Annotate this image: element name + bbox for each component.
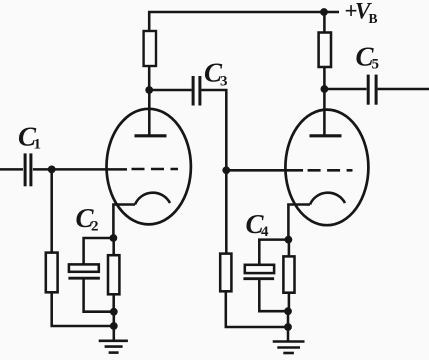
- wire Rk2 bottom to node I: [288, 293, 291, 312]
- wire ground stem 1: [113, 326, 116, 341]
- wire C4 bottom to node I: [259, 279, 288, 312]
- node C (grid 2): [222, 166, 230, 174]
- resistor Rk2 (cathode, stage 2): [283, 256, 294, 292]
- grid dashes V1: [132, 168, 179, 171]
- wire C1 to node A: [33, 168, 52, 171]
- wire node D to Rk1: [112, 238, 115, 255]
- wire node H to Rk2: [288, 240, 291, 257]
- wire node A down to Rg1: [50, 169, 53, 252]
- node I: [284, 307, 292, 315]
- node F: [110, 322, 118, 330]
- capacitor C5: [368, 75, 376, 105]
- wire top supply rail: [149, 12, 324, 31]
- wire node C down to Rg2: [225, 170, 228, 253]
- cathode lead V2: [288, 205, 310, 240]
- plate bar V1: [135, 134, 167, 137]
- wire node B to C3: [149, 89, 191, 92]
- ground 2: [273, 342, 305, 354]
- node A (grid 1): [48, 166, 56, 174]
- plate bar V2: [310, 134, 342, 137]
- wire Ra1 bottom to node B: [148, 66, 151, 90]
- resistor Rg2 (grid leak, stage 2): [220, 254, 231, 292]
- wire Ra2 bottom to node G: [323, 67, 326, 89]
- resistor Ra2 (plate load, stage 2): [319, 33, 331, 68]
- svg-text:4: 4: [261, 224, 269, 240]
- wire C2 bottom to node E: [84, 278, 114, 312]
- capacitor C1: [25, 153, 31, 186]
- wire Rk1 bottom to node E: [112, 294, 115, 311]
- wire ground stem 2: [287, 327, 290, 342]
- capacitor C2 (bottom plate): [68, 277, 100, 280]
- resistor Ra2 lead from rail: [323, 12, 326, 33]
- node H (cathode 2): [285, 236, 293, 244]
- capacitor C3: [193, 76, 200, 106]
- cathode lead V1: [113, 205, 135, 239]
- node B (plate 1 / C3): [145, 86, 153, 94]
- cathode arc V2: [310, 193, 345, 205]
- svg-text:1: 1: [34, 137, 42, 153]
- ground 1: [99, 341, 128, 353]
- capacitor C4 (bottom plate): [243, 277, 274, 280]
- wire node D to C2 branch: [84, 238, 114, 264]
- svg-text:5: 5: [372, 57, 380, 73]
- node G (plate 2 / C5): [321, 85, 329, 93]
- resistor Rg1 (grid leak, stage 1): [46, 253, 58, 293]
- resistor Rk1 (cathode, stage 1): [108, 255, 119, 294]
- wire node A to tube 1 grid: [52, 168, 127, 171]
- wire output: [378, 88, 429, 91]
- node D (cathode 1): [110, 234, 118, 242]
- wire node C to tube 2 grid: [226, 169, 303, 172]
- grid dashes V2: [308, 169, 353, 172]
- wire Rg2 bottom to ground bus: [226, 291, 288, 327]
- svg-text:3: 3: [220, 74, 228, 90]
- wire C3 to grid drop: [201, 90, 226, 170]
- wire Rg1 bottom to ground bus: [52, 292, 114, 326]
- label C1: [18, 122, 41, 153]
- wire node E to node F: [113, 312, 116, 326]
- node J: [284, 323, 292, 331]
- wire plate lead tube 2: [323, 89, 326, 136]
- resistor Ra1 (plate load, stage 1): [144, 31, 156, 66]
- label C3: [204, 58, 228, 90]
- capacitor C4 (top plate): [245, 265, 274, 273]
- node supply junction: [320, 8, 328, 16]
- triode V1 envelope: [107, 109, 191, 225]
- label C5: [356, 42, 380, 73]
- wire plate lead tube 1: [148, 90, 151, 136]
- svg-text:2: 2: [91, 219, 99, 235]
- wire node G to C5: [324, 88, 366, 91]
- node E: [110, 308, 118, 316]
- svg-text:B: B: [369, 11, 378, 26]
- wire input: [0, 168, 23, 171]
- capacitor C2 (top plate): [69, 264, 99, 271]
- wire +VB stub: [324, 11, 339, 14]
- label C4: [246, 209, 270, 240]
- triode V2 envelope: [285, 110, 368, 226]
- label C2: [76, 203, 99, 235]
- wire node H to C4 branch: [259, 240, 288, 265]
- cathode arc V1: [135, 193, 170, 205]
- wire node I to node J: [287, 311, 290, 327]
- label +VB: [345, 0, 378, 26]
